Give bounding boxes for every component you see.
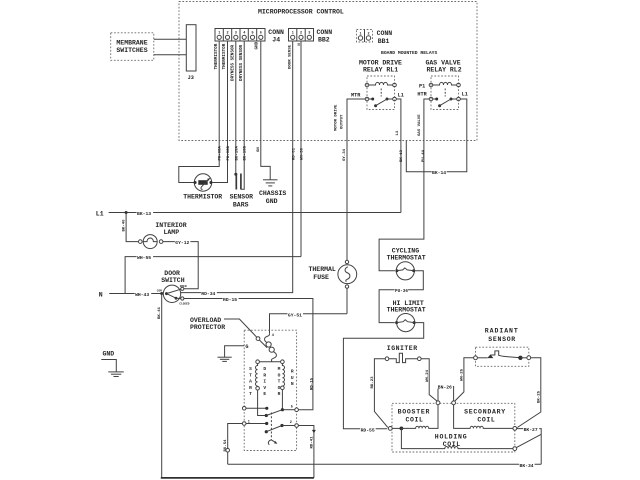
igniter xyxy=(385,345,421,363)
svg-text:RD-01: RD-01 xyxy=(292,147,296,160)
svg-text:THERMISTOR: THERMISTOR xyxy=(222,43,227,69)
svg-text:INTERIOR: INTERIOR xyxy=(155,222,186,229)
svg-text:DOOR: DOOR xyxy=(164,270,180,277)
svg-text:OUTPUT: OUTPUT xyxy=(340,114,344,129)
svg-text:CHASSIS: CHASSIS xyxy=(259,190,286,197)
wire RL2 HTR down (PU-44) to cycling thermostat xyxy=(379,99,429,271)
connector CONN BB1 xyxy=(357,30,393,45)
svg-text:BK-34: BK-34 xyxy=(520,463,534,469)
svg-text:LAMP: LAMP xyxy=(164,229,180,236)
svg-text:THERMISTOR: THERMISTOR xyxy=(183,194,222,201)
svg-text:PU-44: PU-44 xyxy=(422,149,426,162)
svg-text:BOOSTER: BOOSTER xyxy=(398,408,431,415)
svg-text:GND: GND xyxy=(255,41,260,49)
motor G ground terminal xyxy=(218,344,249,362)
wire lamp to door switch open (GY-12) xyxy=(163,239,198,288)
svg-text:RELAY RL1: RELAY RL1 xyxy=(363,67,398,74)
wire RL1 MTR output down to thermal fuse (GY-34) xyxy=(335,99,366,260)
wire igniter right to coil box (WH-24) xyxy=(421,359,437,402)
wire J4 pin4 to sensor bar (BU-19B) xyxy=(241,41,248,189)
svg-text:HOLDING: HOLDING xyxy=(435,434,468,441)
wire BB2 pin1 door sense down to door switch (RD-01 / RD-34) xyxy=(181,41,297,297)
svg-text:GY-12: GY-12 xyxy=(175,240,189,246)
svg-text:MICROPROCESSOR CONTROL: MICROPROCESSOR CONTROL xyxy=(258,9,344,16)
svg-text:BK-40: BK-40 xyxy=(123,219,127,232)
svg-text:FUSE: FUSE xyxy=(313,274,329,281)
wire door switch to motor neutral (BK-41) xyxy=(158,294,162,478)
thermistor xyxy=(183,174,222,201)
relay RL2 gas valve xyxy=(417,59,467,109)
svg-text:BARS: BARS xyxy=(233,201,249,208)
wire lamp feed (BK-40) xyxy=(123,213,139,242)
svg-text:CLOSED: CLOSED xyxy=(179,302,189,305)
wire J4 pin2 to thermistor (PK-08B) xyxy=(212,41,231,183)
hi limit thermostat xyxy=(387,300,426,332)
wire thermal fuse to motor protector (GY-51) xyxy=(270,311,348,333)
svg-text:THERMISTOR: THERMISTOR xyxy=(214,43,219,69)
wire motor terminal 2 to neutral (RD-41) xyxy=(298,426,316,478)
relay RL1 motor drive xyxy=(351,59,404,109)
svg-text:BK-13: BK-13 xyxy=(400,149,404,162)
microprocessor control board box xyxy=(179,2,477,141)
svg-text:L1: L1 xyxy=(398,93,404,99)
svg-text:CONN: CONN xyxy=(317,29,333,36)
motor overload protector element xyxy=(265,333,277,361)
svg-text:L1: L1 xyxy=(96,210,104,217)
motor centrifugal switch row 1 xyxy=(242,405,298,417)
power cord ground (GND) xyxy=(101,351,124,377)
membrane switches block xyxy=(111,33,154,61)
N feed line (WH-43) xyxy=(99,291,164,298)
svg-text:COIL: COIL xyxy=(406,416,424,423)
door switch xyxy=(157,270,190,306)
wire radiant sensor left to coil box (WH-25) xyxy=(455,358,474,401)
thermal fuse xyxy=(309,260,357,313)
svg-text:PK-08A: PK-08A xyxy=(219,145,223,160)
gas valve coil box xyxy=(392,403,515,452)
J4 pin function labels xyxy=(214,41,260,81)
coil box top terminals xyxy=(436,401,440,405)
svg-text:SWITCH: SWITCH xyxy=(161,277,185,284)
svg-text:WH-30: WH-30 xyxy=(301,147,305,160)
bottom return line BK-34 xyxy=(228,462,542,469)
svg-text:THERMAL: THERMAL xyxy=(309,266,336,273)
svg-text:RUN: RUN xyxy=(291,369,294,388)
wire secondary coil out (BK-27) xyxy=(517,426,542,464)
svg-text:GN: GN xyxy=(257,147,261,152)
svg-text:OVERLOAD: OVERLOAD xyxy=(190,317,221,324)
svg-text:MEMBRANE: MEMBRANE xyxy=(116,40,147,47)
radiant sensor xyxy=(474,328,531,367)
motor main winding xyxy=(281,364,285,410)
chassis ground symbol xyxy=(259,180,286,205)
svg-text:RD-41: RD-41 xyxy=(310,436,314,449)
holding coil xyxy=(401,428,516,450)
wire radiant sensor right to secondary coil (BK-25) xyxy=(517,358,541,428)
wire J4 pin6 to chassis ground (GN) xyxy=(257,41,270,180)
svg-text:MOTOR DRIVE: MOTOR DRIVE xyxy=(335,104,339,131)
svg-text:RELAY RL2: RELAY RL2 xyxy=(427,67,462,74)
svg-text:BN-26: BN-26 xyxy=(438,385,452,391)
svg-text:RD-34: RD-34 xyxy=(201,291,215,297)
svg-text:IGNITER: IGNITER xyxy=(387,345,418,352)
motor start winding xyxy=(256,364,267,416)
svg-text:DRYNESS SENSOR: DRYNESS SENSOR xyxy=(239,44,244,81)
svg-text:WH-55: WH-55 xyxy=(137,255,151,261)
svg-text:DRYNESS SENSOR: DRYNESS SENSOR xyxy=(231,44,236,81)
connector J3 xyxy=(186,25,196,81)
svg-text:WH-43: WH-43 xyxy=(135,292,149,298)
svg-text:THERMOSTAT: THERMOSTAT xyxy=(387,254,426,261)
svg-text:J4: J4 xyxy=(272,37,280,44)
wire membrane to J3 (upper) xyxy=(154,38,187,40)
svg-text:GAS VALVE: GAS VALVE xyxy=(418,114,422,136)
wire J4 pin3 to sensor bar (BU-19A) xyxy=(234,41,239,176)
wire BB2 pin2 neutral sense down to WH-55 (WH-30) xyxy=(298,41,305,257)
svg-text:CONN: CONN xyxy=(377,30,393,37)
svg-text:COIL: COIL xyxy=(477,416,495,423)
svg-text:N: N xyxy=(99,291,103,298)
svg-text:BK-13: BK-13 xyxy=(137,211,151,217)
bottom neutral line (thick) xyxy=(161,477,314,479)
booster coil xyxy=(388,405,438,431)
secondary coil xyxy=(454,405,517,431)
wire membrane to J3 (lower) xyxy=(154,54,187,56)
svg-text:WH-24: WH-24 xyxy=(426,369,430,382)
svg-text:MTR: MTR xyxy=(351,93,361,99)
interior lamp xyxy=(139,222,187,249)
wire neutral sense (WH-55) xyxy=(125,254,301,293)
svg-text:THERMOSTAT: THERMOSTAT xyxy=(387,307,426,314)
wire RL1 L1 down to L1 line (BK-13) xyxy=(396,99,404,213)
svg-text:BU-54: BU-54 xyxy=(224,439,228,452)
svg-text:RD-23: RD-23 xyxy=(371,376,375,389)
wire cycling to hi-limit (PU-36) xyxy=(379,271,423,323)
connector CONN BB2 xyxy=(289,29,333,44)
svg-text:SECONDARY: SECONDARY xyxy=(464,408,506,415)
svg-text:COM: COM xyxy=(157,290,162,293)
motor winding top bar xyxy=(256,360,284,364)
svg-text:START: START xyxy=(249,366,252,397)
svg-text:5: 5 xyxy=(291,405,293,409)
svg-text:RADIANT: RADIANT xyxy=(485,328,519,335)
connector CONN J4 xyxy=(215,29,284,44)
svg-text:HTR: HTR xyxy=(417,92,427,98)
svg-text:4: 4 xyxy=(272,334,274,338)
motor centrifugal switch row 2 xyxy=(242,420,298,433)
svg-text:MOTOR: MOTOR xyxy=(278,366,281,397)
svg-text:WH-25: WH-25 xyxy=(461,368,465,381)
svg-text:DRIVE: DRIVE xyxy=(263,366,266,397)
svg-text:BU-19B: BU-19B xyxy=(244,145,248,160)
motor centrifugal actuator xyxy=(268,413,277,445)
svg-text:MOTOR DRIVE: MOTOR DRIVE xyxy=(359,59,402,66)
wire igniter left to booster junction (RD-23) xyxy=(371,359,388,428)
svg-text:GAS VALVE: GAS VALVE xyxy=(426,59,461,66)
L1 feed line (BK-13) xyxy=(96,210,401,217)
svg-text:J3: J3 xyxy=(188,75,194,81)
svg-text:PK-08B: PK-08B xyxy=(227,145,231,160)
svg-text:BB2: BB2 xyxy=(318,37,330,44)
svg-text:PU-36: PU-36 xyxy=(395,289,408,294)
svg-text:CONN: CONN xyxy=(268,29,284,36)
junction N to BK-41 xyxy=(160,292,163,295)
cycling thermostat xyxy=(387,248,426,280)
svg-text:BK-25: BK-25 xyxy=(537,390,541,403)
svg-text:RD-15: RD-15 xyxy=(223,297,237,303)
svg-text:BK-27: BK-27 xyxy=(524,427,538,433)
junction L1 to lamp xyxy=(125,211,128,214)
motor winding labels xyxy=(249,366,294,397)
svg-text:GY-51: GY-51 xyxy=(288,312,302,318)
svg-text:DOOR SENSE: DOOR SENSE xyxy=(289,44,293,69)
svg-text:BU-19A: BU-19A xyxy=(235,145,239,160)
svg-text:SENSOR: SENSOR xyxy=(230,194,254,201)
wire motor terminal 1 to return (BU-54) xyxy=(224,424,242,465)
svg-text:GND: GND xyxy=(103,351,115,358)
svg-text:L1: L1 xyxy=(396,130,400,135)
svg-text:GND: GND xyxy=(266,198,278,205)
svg-text:BB1: BB1 xyxy=(378,38,390,45)
svg-text:SWITCHES: SWITCHES xyxy=(116,47,147,54)
overload protector label and pointer xyxy=(190,317,267,348)
svg-text:BK-41: BK-41 xyxy=(158,306,162,319)
svg-text:G: G xyxy=(245,344,248,350)
svg-text:PROTECTOR: PROTECTOR xyxy=(190,324,225,331)
svg-text:BOARD MOUNTED RELAYS: BOARD MOUNTED RELAYS xyxy=(381,50,437,56)
svg-text:RD-55: RD-55 xyxy=(361,427,375,433)
svg-text:BK-14: BK-14 xyxy=(432,170,446,176)
sensor bars xyxy=(230,174,254,209)
svg-text:P1: P1 xyxy=(419,83,425,89)
svg-text:2: 2 xyxy=(290,421,292,425)
drive motor box xyxy=(244,330,296,450)
svg-text:L1: L1 xyxy=(462,92,468,98)
svg-text:RD-15: RD-15 xyxy=(311,377,315,390)
wire RL2 L1 to board (BK-14) xyxy=(406,99,467,176)
wire hi-limit to booster coil (RD-55) xyxy=(343,323,423,434)
svg-text:SENSOR: SENSOR xyxy=(488,336,516,343)
wire holding coil out diagonal xyxy=(516,434,541,447)
svg-text:GY-34: GY-34 xyxy=(343,148,347,161)
wire door switch closed to motor terminal 5 (RD-15) xyxy=(184,296,315,410)
jumper BN-26 between coil box terminals xyxy=(437,384,453,401)
wire J4 pin1 to thermistor (PK-08A) xyxy=(179,41,223,183)
